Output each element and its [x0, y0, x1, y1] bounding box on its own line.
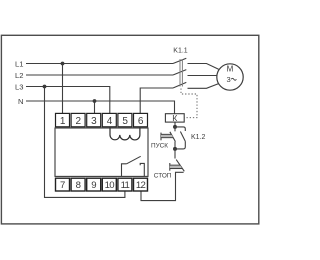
terminal 5 — [118, 113, 132, 126]
coil K box — [165, 114, 184, 122]
contact arm K1.2 — [180, 132, 185, 142]
terminal 1 — [56, 113, 70, 126]
svg-text:9: 9 — [91, 180, 96, 191]
actuator STOP — [169, 163, 171, 171]
stop button SB2 STOP — [170, 149, 185, 171]
contactor contacts K1.1 — [173, 58, 219, 88]
terminal 7 — [56, 178, 70, 191]
svg-text:K1.1: K1.1 — [173, 48, 188, 55]
svg-text:СТОП: СТОП — [154, 172, 172, 179]
terminal row bottom — [56, 178, 148, 191]
svg-text:6: 6 — [138, 116, 144, 127]
wire terminal 12 to stop button — [141, 172, 184, 200]
terminal 10 — [102, 178, 116, 191]
wire L3 branch to terminal 11 — [45, 87, 125, 198]
svg-text:К: К — [172, 113, 177, 123]
dashed mechanical link K1.1 to coil K — [181, 89, 197, 118]
wire node A to K1.2 top — [175, 127, 185, 131]
contact arm phase 2 — [173, 70, 186, 75]
wire L3 to terminal 4 — [26, 87, 110, 114]
wire L2 — [26, 74, 173, 76]
wire phase 3 to motor — [188, 84, 219, 89]
junction N — [93, 99, 97, 103]
wire coil K to node A — [174, 122, 176, 127]
node B junction — [173, 147, 177, 151]
contact arm phase 1 — [173, 58, 186, 63]
node A junction — [173, 125, 177, 129]
border frame — [1, 35, 258, 224]
svg-text:1: 1 — [60, 116, 66, 127]
terminal 12 — [134, 178, 148, 191]
terminal 4 — [102, 113, 116, 126]
coil inside device — [110, 127, 140, 140]
svg-text:7: 7 — [60, 180, 65, 191]
terminal 3 — [87, 113, 101, 126]
svg-text:L3: L3 — [15, 82, 23, 91]
internal relay contact — [122, 156, 145, 176]
svg-text:N: N — [18, 97, 23, 106]
wire PUSK to node B — [174, 142, 176, 149]
terminal 9 — [87, 178, 101, 191]
svg-text:3: 3 — [91, 116, 97, 127]
actuator STOP shading — [170, 166, 182, 168]
junction L3 — [43, 85, 47, 89]
start button SB1 PUSK branch — [161, 127, 175, 149]
svg-text:5: 5 — [122, 116, 128, 127]
wire node B to STOP — [174, 149, 176, 159]
terminal 6 — [134, 113, 148, 126]
terminal 11 — [118, 178, 132, 191]
wire terminal 6 to contact K1.1 phase 3 — [140, 88, 173, 113]
wire N branch to terminal 3 — [94, 101, 96, 113]
wire L1 branch to terminal 1 — [62, 64, 64, 114]
svg-text:2: 2 — [76, 116, 82, 127]
svg-text:L2: L2 — [15, 71, 23, 80]
svg-text:K1.2: K1.2 — [191, 134, 206, 141]
wire L1 — [26, 63, 173, 65]
relay device box — [55, 128, 148, 176]
wire phase 1 to motor — [188, 64, 219, 70]
svg-text:4: 4 — [107, 116, 113, 127]
auxiliary contact K1.2 branch — [175, 127, 185, 149]
wire node A down — [174, 127, 176, 131]
wire K1.2 to node B — [175, 141, 185, 149]
svg-text:11: 11 — [121, 180, 130, 191]
junction L1 — [61, 62, 65, 66]
terminal row top — [56, 113, 148, 126]
mechanical linkage bar K1.1 — [180, 59, 182, 87]
svg-text:12: 12 — [136, 180, 146, 191]
svg-text:3: 3 — [226, 75, 230, 84]
wire N to coil K — [26, 101, 175, 114]
terminal 8 — [71, 178, 85, 191]
svg-text:10: 10 — [105, 180, 115, 191]
contact arm STOP — [176, 160, 184, 172]
actuator PUSK — [160, 133, 162, 141]
contact arm PUSK — [170, 132, 176, 142]
terminal 2 — [71, 113, 85, 126]
contact arm phase 3 — [173, 82, 186, 88]
svg-text:ПУСК: ПУСК — [151, 143, 168, 150]
svg-text:M: M — [227, 65, 234, 74]
motor M1 — [217, 64, 243, 90]
actuator PUSK shading — [161, 135, 173, 137]
svg-text:8: 8 — [76, 180, 81, 191]
svg-text:L1: L1 — [15, 59, 23, 68]
wire phase 2 to motor — [188, 75, 217, 77]
